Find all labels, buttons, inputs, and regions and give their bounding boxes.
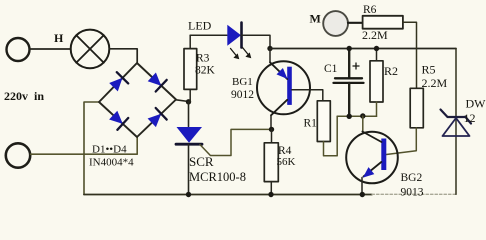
node dot rail/LED/BG1 emitter	[267, 46, 272, 51]
wire R2 bottom	[376, 102, 378, 116]
resistor R1	[317, 101, 330, 142]
svg-text:M: M	[310, 12, 321, 26]
svg-text:H: H	[54, 31, 64, 45]
resistor R2	[370, 61, 383, 102]
wire R4 bottom	[270, 182, 272, 195]
BG1 base bar	[287, 67, 292, 105]
transistor BG1 circle	[257, 61, 310, 114]
svg-text:R2: R2	[384, 64, 398, 78]
diode D4 (bottom-right edge)	[148, 108, 167, 127]
BG1 base wire to R1	[292, 90, 323, 101]
terminal lower (220v in)	[6, 143, 30, 167]
svg-text:2.2M: 2.2M	[422, 76, 448, 90]
svg-text:SCR: SCR	[189, 154, 214, 169]
node dot bridge+/R3/SCR	[186, 99, 191, 104]
BG1 emitter wire from rail	[269, 49, 271, 63]
BG1 emitter diagonal with arrow	[270, 62, 288, 79]
BG2 emitter wire down	[361, 178, 363, 195]
SCR anode wire	[188, 102, 190, 127]
BG2 collector wire	[362, 116, 364, 132]
node dot BG2 collector/bus	[360, 113, 365, 118]
svg-text:12: 12	[464, 111, 476, 125]
right edge wire (rail to DW to bottom)	[455, 49, 457, 195]
wire R1 bottom U to bus	[324, 116, 338, 156]
node dot BG2 emitter/bottom rail	[360, 192, 365, 197]
wire LED row	[190, 34, 227, 36]
wire terminal to bridge bottom	[31, 137, 138, 154]
bottom rail faint right segment	[372, 193, 457, 195]
terminal upper (220v in)	[7, 38, 30, 61]
wire lamp to bridge top	[109, 49, 137, 63]
svg-text:R6: R6	[363, 4, 377, 16]
svg-text:R1: R1	[304, 118, 318, 130]
svg-text:R5: R5	[422, 63, 436, 77]
node dot SCR cathode/bottom rail	[186, 192, 191, 197]
diode D2 (top-right edge)	[148, 73, 167, 92]
node dot C1 bottom/bus	[347, 114, 352, 119]
svg-text:DW: DW	[466, 97, 486, 111]
resistor R4	[264, 143, 278, 182]
resistor R5	[410, 88, 423, 128]
transistor BG2 circle	[346, 132, 398, 184]
svg-text:MCR100-8: MCR100-8	[189, 170, 246, 184]
node dot C1 top/rail	[347, 46, 352, 51]
svg-text:56K: 56K	[277, 156, 296, 168]
wire terminal to lamp	[30, 48, 71, 50]
svg-text:9012: 9012	[231, 89, 254, 101]
LED light arrow 1	[231, 49, 240, 60]
svg-text:D1••D4: D1••D4	[92, 144, 127, 156]
svg-text:R3: R3	[196, 53, 210, 65]
BG2 base bar	[381, 139, 386, 171]
diode D1 (top-left edge)	[109, 72, 128, 91]
resistor R6	[363, 16, 403, 29]
SCR MCR100-8	[176, 127, 202, 144]
zener diode DW	[441, 110, 472, 137]
svg-text:BG2: BG2	[401, 172, 423, 184]
wire LED to rail corner	[242, 35, 271, 48]
diode D3 (bottom-left edge)	[109, 111, 128, 130]
microphone M	[323, 11, 348, 36]
wire R3 bottom	[189, 89, 191, 101]
svg-text:IN4004*4: IN4004*4	[89, 157, 134, 169]
wire R4 top	[271, 129, 273, 142]
wire R5 bottom to BG2 base	[386, 128, 416, 155]
svg-text:9013: 9013	[401, 187, 424, 199]
bus wire (C1/R1/R2/BG2 collector node)	[337, 115, 376, 117]
lamp H	[71, 30, 110, 69]
node dot R4/bottom rail	[268, 192, 273, 197]
svg-text:C1: C1	[324, 63, 338, 75]
bottom rail	[84, 194, 372, 196]
C1 plus sign	[353, 63, 359, 69]
svg-text:LED: LED	[188, 19, 212, 33]
BG1 collector wire down	[270, 115, 272, 129]
BG2 collector diagonal	[362, 132, 381, 143]
wire M to R6	[348, 22, 363, 24]
wire bridge left vertex to bottom rail	[84, 102, 99, 195]
svg-text:BG1: BG1	[232, 76, 253, 88]
wire bridge right vertex to node	[176, 100, 189, 102]
wire R2 top	[376, 49, 378, 61]
bridge rectifier frame	[99, 63, 176, 137]
SCR gate wire	[200, 129, 272, 155]
svg-text:220v in: 220v in	[4, 89, 44, 103]
wire R3 top	[189, 35, 191, 48]
resistor R3	[184, 49, 197, 90]
wire R6 to R5 (crosses rail)	[403, 22, 417, 88]
node dot BG1 collector/gate/R4	[269, 127, 274, 132]
svg-text:82K: 82K	[195, 65, 216, 77]
top rail	[270, 48, 456, 50]
SCR cathode wire	[188, 144, 190, 194]
LED light arrow 2	[243, 48, 252, 59]
capacitor C1	[334, 49, 364, 117]
node dot R2 top/rail	[374, 46, 379, 51]
LED diode	[227, 23, 241, 48]
BG1 collector diagonal	[271, 100, 287, 116]
BG2 emitter diagonal with arrow	[363, 162, 381, 178]
svg-text:2.2M: 2.2M	[362, 28, 388, 42]
